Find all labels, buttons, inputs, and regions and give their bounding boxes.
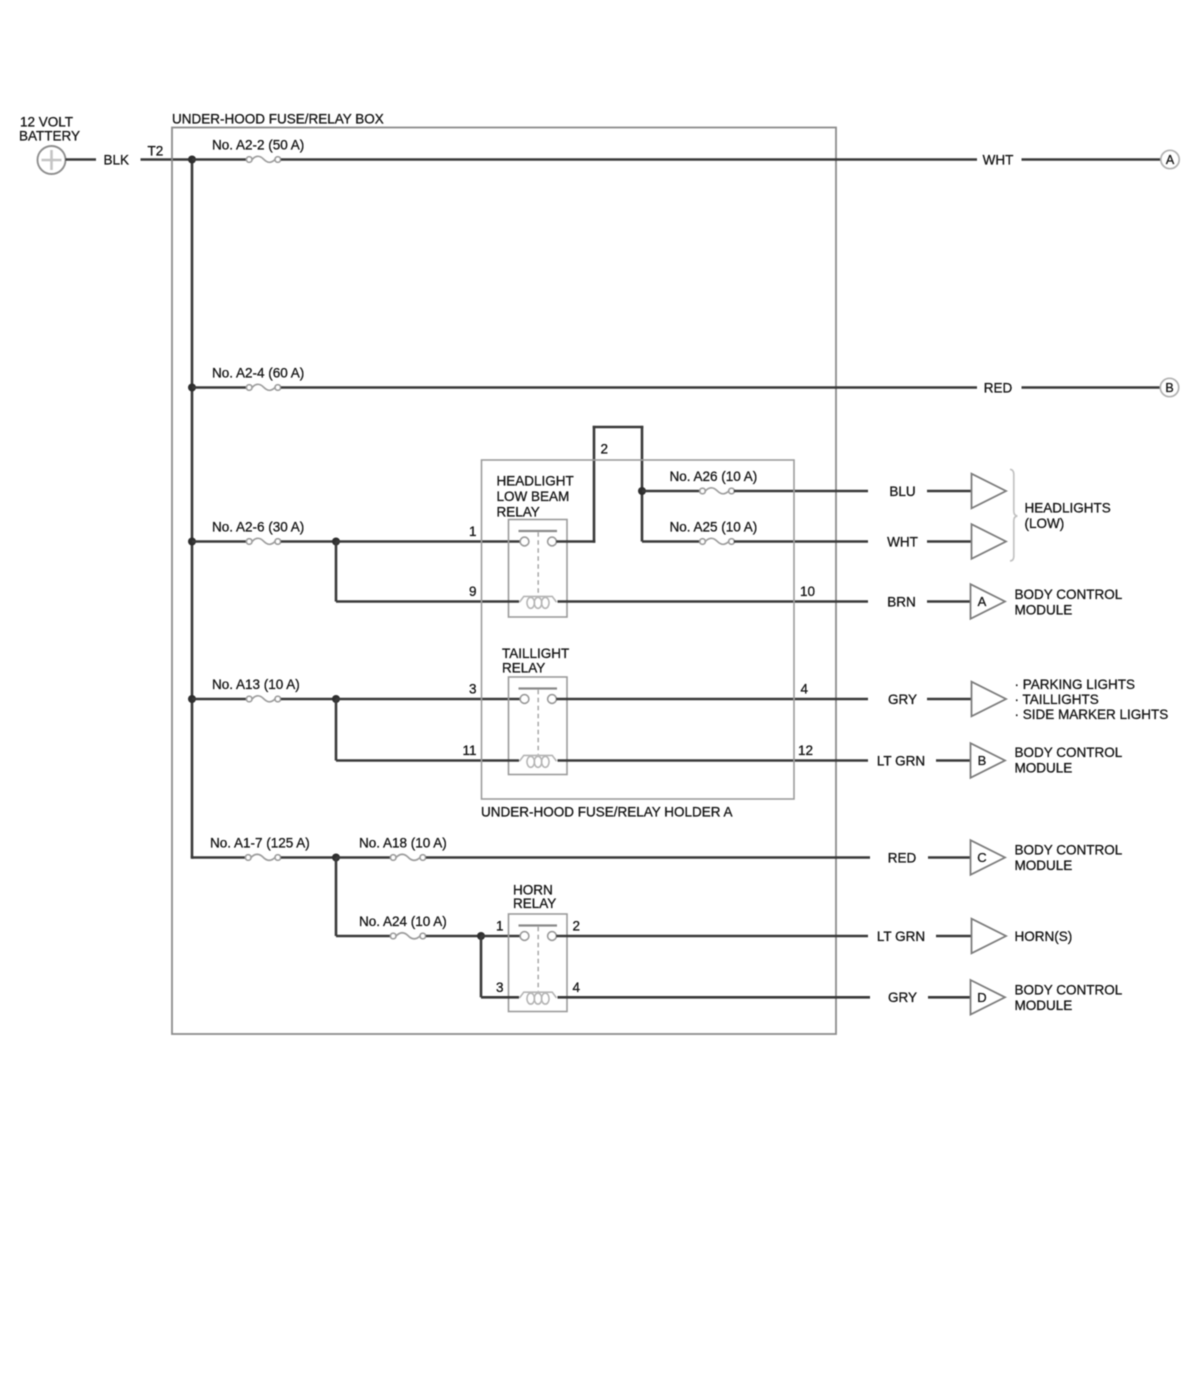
- relay K2 taillight relay body: [509, 677, 568, 775]
- connector triangle parking/taillights: [972, 682, 1007, 717]
- wire bus to fuse A2-4: [192, 386, 247, 389]
- svg-text:12: 12: [798, 743, 813, 758]
- svg-text:RED: RED: [888, 850, 917, 865]
- connector triangle headlight low left: [972, 474, 1007, 509]
- under-hood fuse/relay box outline: [172, 128, 836, 1035]
- wire node to taillight relay pin 3: [336, 698, 520, 701]
- svg-text:9: 9: [469, 584, 477, 599]
- fuse F A24: [390, 933, 425, 939]
- wire RED to connector B: [1022, 386, 1161, 389]
- wire BRN to BCM triangle A: [927, 600, 971, 603]
- svg-text:C: C: [977, 850, 986, 865]
- node junction bus/A2-6: [188, 538, 196, 546]
- svg-text:11: 11: [462, 743, 476, 758]
- wire fuse A1-7 to node: [281, 856, 336, 859]
- fuse F A1-7: [245, 854, 280, 860]
- svg-text:A: A: [1166, 153, 1175, 167]
- svg-text:TAILLIGHT: TAILLIGHT: [502, 646, 569, 661]
- relay K2 coil: [520, 755, 557, 767]
- relay K3 switch contacts: [519, 924, 558, 926]
- fuse F A2-4: [246, 384, 280, 390]
- svg-text:BLK: BLK: [104, 152, 130, 167]
- svg-text:1: 1: [496, 919, 504, 934]
- node junction A1-7 branch: [332, 854, 340, 862]
- wire A2-6 branch down to relay pin 9: [335, 542, 338, 602]
- svg-text:No. A2-6 (30 A): No. A2-6 (30 A): [212, 520, 304, 535]
- relay K3 actuator dashed line: [537, 927, 539, 992]
- svg-text:No. A26 (10 A): No. A26 (10 A): [670, 469, 758, 484]
- wire bus to fuse A13: [192, 698, 247, 701]
- wire BLK to terminal T2: [141, 158, 193, 161]
- fuse F A18: [390, 854, 425, 860]
- wire horn coil pin 4 to GRY label: [558, 996, 871, 999]
- wire bus corner to fuse A1-7: [191, 856, 194, 859]
- wire WHT to headlight right triangle: [927, 540, 972, 543]
- wire fuse A2-4 to RED label: [281, 386, 977, 389]
- svg-text:BLU: BLU: [889, 484, 915, 499]
- svg-text:RELAY: RELAY: [513, 896, 556, 911]
- wire bus to fuse A2-6: [192, 540, 247, 543]
- svg-text:MODULE: MODULE: [1015, 998, 1073, 1013]
- svg-text:T2: T2: [148, 144, 164, 159]
- wire node to fuse A18: [336, 856, 393, 859]
- svg-text:RELAY: RELAY: [497, 504, 540, 519]
- svg-text:No. A25 (10 A): No. A25 (10 A): [670, 520, 758, 535]
- svg-text:3: 3: [469, 682, 477, 697]
- relay K1 headlight low beam relay body: [509, 520, 568, 618]
- bus wire from T2 down left side: [191, 160, 194, 858]
- svg-text:LT GRN: LT GRN: [877, 753, 925, 768]
- relay K3 horn relay body: [509, 914, 568, 1012]
- wire LT GRN to horn triangle: [936, 935, 972, 938]
- relay K2 switch contacts: [519, 687, 558, 689]
- connector B: [1160, 378, 1178, 396]
- svg-text:A: A: [978, 594, 987, 609]
- svg-text:GRY: GRY: [888, 692, 917, 707]
- svg-text:GRY: GRY: [888, 990, 917, 1005]
- svg-text:MODULE: MODULE: [1015, 858, 1073, 873]
- svg-text:3: 3: [496, 980, 504, 995]
- connector A: [1161, 150, 1179, 168]
- wire fuse A13 to node: [281, 698, 336, 701]
- relay K1 actuator dashed line: [537, 532, 539, 595]
- svg-text:· TAILLIGHTS: · TAILLIGHTS: [1015, 692, 1099, 707]
- wire fuse A26 to BLU label: [734, 490, 868, 493]
- svg-text:LOW BEAM: LOW BEAM: [497, 489, 570, 504]
- svg-text:· SIDE MARKER LIGHTS: · SIDE MARKER LIGHTS: [1015, 707, 1169, 722]
- svg-text:MODULE: MODULE: [1015, 761, 1073, 776]
- wire battery to BLK label: [66, 158, 97, 161]
- fuse F A13: [246, 696, 280, 702]
- svg-text:BRN: BRN: [887, 594, 916, 609]
- svg-text:UNDER-HOOD FUSE/RELAY HOLDER A: UNDER-HOOD FUSE/RELAY HOLDER A: [481, 805, 733, 820]
- brace headlights group: [1010, 469, 1017, 561]
- node junction pin2 branch to A26: [638, 487, 646, 495]
- wire A1-7 branch down to A24: [335, 858, 338, 937]
- connector triangle B body control module: [971, 743, 1006, 778]
- svg-text:No. A2-4 (60 A): No. A2-4 (60 A): [212, 366, 304, 381]
- fuse F A26: [700, 488, 735, 494]
- svg-text:· PARKING LIGHTS: · PARKING LIGHTS: [1015, 677, 1136, 692]
- node junction T2/bus: [188, 156, 196, 164]
- wire taillight coil pin 12 to LT GRN label: [558, 759, 869, 762]
- wire WHT to connector A: [1022, 158, 1162, 161]
- svg-text:RELAY: RELAY: [502, 661, 545, 676]
- wire taillight pin 4 to GRY label: [556, 698, 868, 701]
- svg-text:RED: RED: [984, 380, 1013, 395]
- svg-text:HEADLIGHT: HEADLIGHT: [497, 474, 574, 489]
- relay K1 coil: [520, 596, 557, 608]
- wire relay pin 2 up and over: [556, 540, 595, 543]
- svg-text:B: B: [1165, 381, 1173, 395]
- wire fuse A24 to horn relay node: [426, 935, 481, 938]
- battery B1 12V positive terminal: [38, 146, 66, 174]
- wire horn node down to relay pin 3: [480, 936, 483, 997]
- svg-text:D: D: [977, 990, 986, 1005]
- wire fuse A2-2 to WHT label: [281, 158, 977, 161]
- wire bus to fuse A2-2: [192, 158, 247, 161]
- fuse F A25: [700, 538, 735, 544]
- wire GRY to BCM triangle D: [928, 996, 971, 999]
- wire GRY to lights triangle: [927, 698, 972, 701]
- wire LT GRN to BCM triangle B: [936, 759, 971, 762]
- svg-text:No. A18 (10 A): No. A18 (10 A): [359, 836, 447, 851]
- svg-text:1: 1: [469, 524, 477, 539]
- wire A13 branch down to relay pin 11: [335, 699, 338, 761]
- svg-text:BODY CONTROL: BODY CONTROL: [1015, 843, 1123, 858]
- svg-text:UNDER-HOOD FUSE/RELAY BOX: UNDER-HOOD FUSE/RELAY BOX: [172, 112, 384, 127]
- fuse F A2-6: [246, 538, 280, 544]
- relay K3 coil: [520, 992, 557, 1004]
- svg-text:4: 4: [801, 682, 809, 697]
- wire horn pin 2 to LT GRN label: [556, 935, 868, 938]
- svg-text:LT GRN: LT GRN: [877, 929, 925, 944]
- wire node to horn relay pin 1: [481, 935, 520, 938]
- relay K2 actuator dashed line: [537, 690, 539, 755]
- wire pin2 branch to fuse A25: [642, 540, 703, 543]
- svg-text:BODY CONTROL: BODY CONTROL: [1015, 983, 1123, 998]
- connector triangle D body control module: [971, 980, 1006, 1015]
- svg-text:12 VOLT: 12 VOLT: [20, 115, 73, 130]
- svg-text:4: 4: [573, 980, 581, 995]
- node junction A2-6 branch: [332, 538, 340, 546]
- node junction horn relay branch: [477, 932, 485, 940]
- node junction bus/A2-4: [188, 384, 196, 392]
- connector triangle horns: [972, 919, 1007, 954]
- wire node to fuse A26: [642, 490, 703, 493]
- svg-text:WHT: WHT: [887, 534, 918, 549]
- wire fuse A18 to RED label: [426, 856, 870, 859]
- svg-text:HORN(S): HORN(S): [1015, 929, 1073, 944]
- svg-text:No. A24 (10 A): No. A24 (10 A): [359, 914, 447, 929]
- under-hood fuse/relay holder A outline: [482, 460, 795, 799]
- wire BLU to headlight left triangle: [927, 490, 972, 493]
- node junction bus/A13: [188, 695, 196, 703]
- svg-text:No. A13 (10 A): No. A13 (10 A): [212, 677, 300, 692]
- connector triangle headlight low right: [972, 524, 1007, 559]
- wire fuse A2-6 to node: [281, 540, 336, 543]
- wire branch to fuse A24: [336, 935, 393, 938]
- svg-text:2: 2: [601, 442, 609, 457]
- svg-text:BODY CONTROL: BODY CONTROL: [1015, 587, 1123, 602]
- wire RED to BCM triangle C: [928, 856, 971, 859]
- svg-text:(LOW): (LOW): [1025, 516, 1065, 531]
- connector triangle A body control module: [971, 584, 1006, 619]
- wire node to relay pin 1: [336, 540, 520, 543]
- svg-text:No. A2-2 (50 A): No. A2-2 (50 A): [212, 138, 304, 153]
- svg-text:WHT: WHT: [983, 152, 1014, 167]
- svg-text:BODY CONTROL: BODY CONTROL: [1015, 745, 1123, 760]
- svg-text:No. A1-7 (125 A): No. A1-7 (125 A): [210, 836, 310, 851]
- svg-text:HEADLIGHTS: HEADLIGHTS: [1025, 501, 1111, 516]
- wire fuse A25 to WHT label: [734, 540, 868, 543]
- svg-text:MODULE: MODULE: [1015, 603, 1073, 618]
- relay K1 switch contacts: [519, 530, 558, 532]
- svg-text:10: 10: [800, 584, 815, 599]
- fuse F A2-2: [246, 156, 280, 162]
- wire relay coil pin 10 to BRN label: [558, 600, 869, 603]
- node junction A13 branch: [332, 695, 340, 703]
- svg-text:BATTERY: BATTERY: [19, 129, 80, 144]
- svg-text:2: 2: [573, 919, 581, 934]
- connector triangle C body control module: [971, 840, 1006, 875]
- svg-text:B: B: [978, 753, 987, 768]
